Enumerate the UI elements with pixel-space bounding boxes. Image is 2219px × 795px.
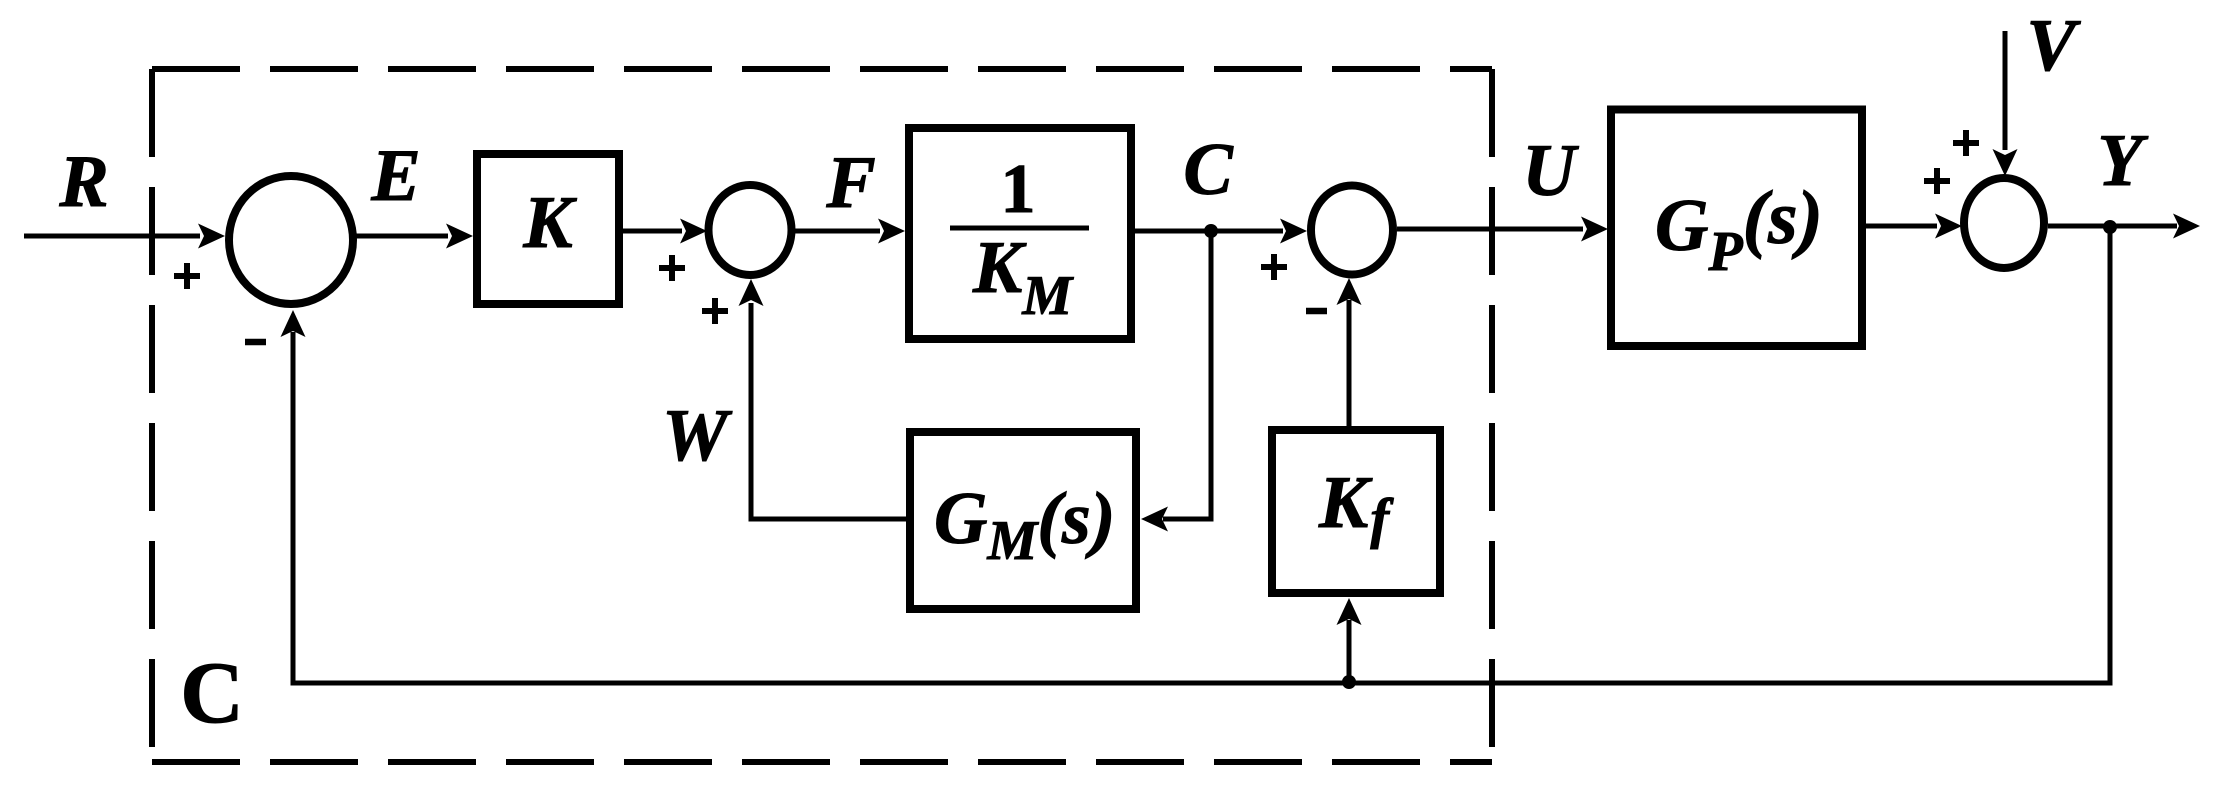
summing junction S2 [709, 185, 792, 275]
summing junction S3 [1311, 186, 1393, 275]
wire F from S2 to 1/KM block [795, 229, 880, 234]
wire from Kf to S3 [1347, 300, 1352, 426]
wire Y output [2048, 224, 2177, 229]
svg-text:Y: Y [2097, 120, 2148, 202]
wire from K to S2 [623, 229, 682, 234]
svg-text:U: U [1522, 130, 1579, 212]
wire U from S3 to GP [1397, 227, 1583, 232]
svg-text:E: E [370, 135, 420, 217]
plus sign at S2 bottom [702, 298, 728, 324]
svg-text:C: C [180, 645, 244, 742]
node C junction dot [1204, 224, 1218, 238]
svg-text:1: 1 [1001, 151, 1036, 228]
wire from node C down into GM [1163, 231, 1211, 519]
plus sign at S2 input [659, 255, 685, 281]
plus sign at S4 input [1924, 168, 1950, 194]
block GP(s) [1611, 110, 1862, 347]
wire Y feedback down and across bottom to S1 [293, 227, 2110, 683]
wire R input [24, 234, 200, 239]
summing junction S1 [229, 176, 353, 304]
node Y junction dot [2103, 220, 2117, 234]
wire from GP to S4 [1866, 224, 1937, 229]
svg-text:W: W [662, 395, 733, 477]
svg-text:V: V [2026, 5, 2081, 87]
svg-text:R: R [58, 141, 108, 223]
wire C from 1/KM to S3 [1135, 229, 1283, 234]
svg-text:K: K [522, 182, 577, 264]
fraction bar of 1/KM [950, 226, 1089, 231]
block 1/KM [909, 128, 1131, 339]
svg-text:C: C [1183, 129, 1234, 211]
wire from feedback into Kf [1347, 620, 1352, 682]
junction dot at Kf pickoff [1342, 675, 1356, 689]
wire W from GM to S2 [751, 303, 906, 519]
wire E from S1 to K [355, 234, 448, 239]
plus sign at S3 input [1261, 254, 1287, 280]
wire V disturbance input [2003, 31, 2008, 150]
dashed controller boundary box C [152, 69, 1492, 762]
block K [477, 154, 619, 304]
plus sign at S1 input [174, 263, 200, 289]
block Kf [1272, 430, 1440, 593]
summing junction S4 [1964, 178, 2044, 268]
plus sign at S4 top [1953, 130, 1979, 156]
block GM(s) [910, 432, 1136, 609]
minus sign at S1 bottom [245, 339, 266, 346]
minus sign at S3 bottom [1306, 308, 1327, 315]
svg-text:F: F [825, 142, 875, 224]
